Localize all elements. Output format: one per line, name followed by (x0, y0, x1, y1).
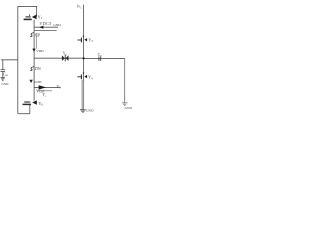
svg-text:Y2: Y2 (63, 52, 68, 57)
ground (right rail) (80, 110, 86, 113)
wire right rail upper (83, 5, 85, 81)
svg-text:GND: GND (125, 106, 133, 110)
wire top left (18, 5, 37, 7)
wire Cin stub (1, 59, 18, 61)
current arrow 1 (32, 49, 35, 52)
svg-text:Y5: Y5 (56, 85, 61, 90)
capacitor Cin (1, 70, 6, 72)
transistor Y1 (24, 14, 37, 19)
svg-text:Y4: Y4 (88, 75, 93, 81)
arrow Vctl (39, 85, 47, 89)
wire bottom stem (29, 105, 31, 114)
ground (Cp branch) (122, 103, 128, 106)
svg-text:VDC5: VDC5 (39, 21, 51, 26)
svg-text:Cin: Cin (3, 72, 8, 77)
svg-text:VCtrl: VCtrl (36, 90, 44, 94)
wire output right to Cp (84, 57, 125, 59)
svg-text:Y5: Y5 (42, 93, 47, 98)
svg-text:Y3: Y3 (88, 37, 93, 43)
wire bottom (18, 113, 30, 115)
wire vctl annotation (34, 86, 61, 88)
wire gnd stub lower faint (34, 29, 57, 31)
svg-text:VDD: VDD (34, 80, 42, 84)
wire gnd stub with arrow (34, 26, 58, 28)
wire left rail (17, 6, 19, 113)
svg-text:GND: GND (1, 82, 9, 86)
wire secondary column faint (35, 33, 37, 49)
svg-text:DN: DN (35, 66, 41, 71)
wire vctl lower faint (37, 90, 52, 92)
wire output mid (34, 57, 84, 59)
wire middle column (33, 20, 35, 101)
transistor Y4 (77, 73, 87, 79)
node output junction (83, 57, 85, 59)
current arrow 2 (29, 80, 32, 83)
svg-text:Cp: Cp (98, 52, 103, 58)
transistor Y6 (bottom) (23, 100, 37, 104)
wire Cp branch down (124, 58, 126, 102)
svg-text:UP: UP (35, 33, 41, 38)
wire top drop to Y1 (36, 6, 38, 16)
svg-text:GND: GND (86, 108, 94, 112)
svg-text:Iv1: Iv1 (77, 5, 82, 10)
svg-text:Y6: Y6 (38, 101, 43, 107)
svg-text:GND: GND (53, 23, 61, 27)
transistor Y3 (77, 36, 87, 42)
wire right rail doubled segment (82, 80, 84, 110)
ground (Cin) (1, 77, 6, 80)
svg-text:VDD: VDD (36, 49, 44, 53)
transistor Y2 (bowtie on output wire) (62, 55, 69, 62)
arrow left on stub (39, 26, 43, 29)
capacitor Cp (99, 57, 101, 61)
wire Cin vertical (2, 60, 4, 77)
svg-text:Y1: Y1 (38, 14, 43, 20)
switch UP glyph (30, 33, 34, 37)
switch DN glyph (30, 67, 34, 71)
